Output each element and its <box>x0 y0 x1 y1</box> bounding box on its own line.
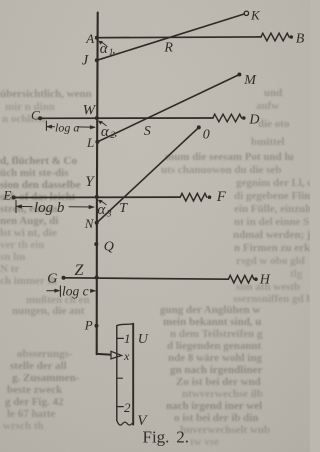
dimension "log b" right arrow <box>69 206 94 208</box>
svg-text:1: 1 <box>124 331 131 346</box>
svg-text:log b: log b <box>34 200 65 216</box>
svg-text:ein Fülle, einzuln: ein Fülle, einzuln <box>234 203 310 215</box>
svg-text:R: R <box>163 41 173 56</box>
angle alpha1 arrow at J <box>100 42 106 46</box>
bleed-through text from reverse page side <box>0 87 320 448</box>
main vertical axis line <box>97 13 98 355</box>
svg-text:D: D <box>248 112 259 127</box>
svg-text:rsgd w obo gld: rsgd w obo gld <box>236 255 305 267</box>
svg-text:W: W <box>83 103 97 119</box>
svg-text:wrsch th: wrsch th <box>3 420 44 432</box>
ray N-T-O diagonal <box>97 127 199 222</box>
svg-text:3: 3 <box>106 209 112 219</box>
svg-text:hnverwechselt wub: hnverwechselt wub <box>180 424 270 436</box>
ray J-R-K diagonal <box>97 14 244 60</box>
svg-text:α: α <box>97 202 106 218</box>
svg-text:U: U <box>138 332 149 347</box>
svg-text:uts chanuowon du die seb: uts chanuowon du die seb <box>161 164 281 176</box>
terminal dot F <box>208 195 212 199</box>
svg-text:Q: Q <box>104 240 114 255</box>
svg-text:gung der Anglühen w: gung der Anglühen w <box>160 304 260 316</box>
svg-text:T: T <box>119 201 128 216</box>
svg-text:aufw: aufw <box>256 100 279 112</box>
svg-text:nt in del einne S: nt in del einne S <box>234 216 309 228</box>
svg-text:mir n dinn: mir n dinn <box>5 101 55 113</box>
terminal dot H <box>254 277 258 281</box>
resistor H zigzag <box>228 275 253 283</box>
svg-text:d liegenden genannt: d liegenden genannt <box>167 340 261 352</box>
svg-text:tlg: tlg <box>290 268 303 280</box>
svg-text:Fig. 2.: Fig. 2. <box>143 428 189 447</box>
svg-text:g der Fig. 42: g der Fig. 42 <box>5 396 64 408</box>
svg-text:gegnim der Ll, d: gegnim der Ll, d <box>236 177 310 189</box>
node Z dot <box>95 276 99 280</box>
svg-text:le 67 hatte: le 67 hatte <box>7 408 55 420</box>
svg-text:J: J <box>82 52 89 68</box>
tick after alpha1 subscript <box>113 52 115 54</box>
svg-text:obsserungs-: obsserungs- <box>17 348 73 360</box>
svg-text:P: P <box>84 317 93 332</box>
angle alpha3 arrow at Y <box>100 201 107 205</box>
dimension "log b": tick below E <box>15 201 17 213</box>
svg-text:1: 1 <box>109 48 114 58</box>
svg-text:α: α <box>100 41 109 57</box>
svg-text:K: K <box>250 7 261 22</box>
scale tick middle <box>117 377 123 379</box>
wire E-F (row 3 horizontal) <box>14 196 181 198</box>
svg-text:0: 0 <box>203 127 210 142</box>
open arrowhead pointing into scale at x <box>111 351 122 359</box>
wire G-H (row 4 horizontal) <box>64 278 229 279</box>
svg-text:E: E <box>3 188 12 203</box>
node L dot <box>95 140 99 144</box>
node P dot <box>95 324 99 328</box>
scale bar top edge <box>117 324 133 326</box>
scale bar right edge <box>132 324 134 425</box>
svg-text:Z: Z <box>75 262 85 279</box>
node K open circle <box>244 11 248 15</box>
svg-text:o ist bei der ib din: o ist bei der ib din <box>174 412 258 424</box>
svg-text:N: N <box>84 216 95 231</box>
scale tick 1 <box>117 337 124 339</box>
svg-text:nach irgend iner wel: nach irgend iner wel <box>166 400 262 412</box>
svg-text:mein bekannt sind, u: mein bekannt sind, u <box>163 316 261 328</box>
svg-text:N tr: N tr <box>0 263 19 275</box>
dimension "log c" right arrow into axis <box>91 290 95 292</box>
svg-text:n dem Teilstreifen g: n dem Teilstreifen g <box>170 328 263 340</box>
ray L-S-M diagonal <box>97 75 239 142</box>
svg-text:übersichtlich, wenn: übersichtlich, wenn <box>0 88 92 100</box>
dimension "log a" left arrow <box>47 126 55 128</box>
svg-text:gn nach irgendliner: gn nach irgendliner <box>170 364 262 376</box>
wire: elbow from axis bottom to scale arrow <box>97 353 112 356</box>
scale bar bottom break squiggle <box>117 420 133 425</box>
scale bar U-V: left edge <box>116 326 118 421</box>
svg-text:ndmal werden; jad: ndmal werden; jad <box>233 229 310 241</box>
svg-text:2: 2 <box>110 131 115 141</box>
svg-text:nen Auge, di: nen Auge, di <box>0 215 58 227</box>
node Q dot <box>94 242 98 246</box>
svg-text:sion den dasselbe: sion den dasselbe <box>0 179 81 191</box>
resistor F zigzag <box>180 193 207 201</box>
terminal dot B <box>290 35 294 39</box>
svg-text:2: 2 <box>124 400 131 415</box>
svg-text:Zo ist bei der wnd: Zo ist bei der wnd <box>176 376 261 388</box>
terminal dot D <box>242 116 246 120</box>
node J dot <box>95 58 99 62</box>
svg-text:L: L <box>86 135 94 150</box>
node E dot <box>12 196 16 200</box>
svg-text:nungen, die ant: nungen, die ant <box>12 305 85 317</box>
scale tick 2 <box>117 406 123 408</box>
svg-text:di gegebene Flim: di gegebene Flim <box>234 190 310 202</box>
svg-text:d, flüchert & Co: d, flüchert & Co <box>0 155 77 167</box>
svg-text:S: S <box>144 124 151 139</box>
dimension "log b" left arrow <box>17 205 32 207</box>
svg-text:beste zweck: beste zweck <box>7 384 63 396</box>
node N dot <box>95 221 99 225</box>
svg-text:ver th ein: ver th ein <box>0 239 44 251</box>
svg-text:C: C <box>31 108 40 123</box>
dimension "log a" right arrow <box>78 126 95 128</box>
svg-text:n Firmen zu erklt: n Firmen zu erklt <box>234 242 310 254</box>
node C dot <box>38 116 42 120</box>
node W dot <box>95 116 99 120</box>
svg-text:bmittel: bmittel <box>251 136 285 148</box>
svg-text:H: H <box>259 272 271 287</box>
svg-text:üch mit ste-dis: üch mit ste-dis <box>0 167 69 179</box>
svg-text:die oto: die oto <box>258 118 290 130</box>
svg-text:lst wi nt, die: lst wi nt, die <box>0 227 57 239</box>
svg-text:g. Zusammen-: g. Zusammen- <box>12 372 80 384</box>
wire C-D (row 2 horizontal) <box>40 117 213 119</box>
svg-text:nde 8 wäre wohl ing: nde 8 wäre wohl ing <box>168 352 262 364</box>
resistor D zigzag <box>213 114 242 122</box>
svg-text:sn lm: sn lm <box>0 251 25 263</box>
svg-text:tw vse: tw vse <box>190 436 219 448</box>
resistor B zigzag <box>261 33 289 41</box>
node O dot <box>197 125 201 129</box>
svg-text:mum die seesam Pot und lu: mum die seesam Pot und lu <box>165 151 294 163</box>
svg-text:ntwverwechse ilb: ntwverwechse ilb <box>182 388 263 400</box>
svg-text:stelle der all: stelle der all <box>10 360 67 372</box>
svg-text:M: M <box>243 73 257 88</box>
tick after alpha2 subscript <box>115 135 117 137</box>
node M dot <box>237 73 241 77</box>
svg-text:B: B <box>296 31 305 46</box>
svg-text:α: α <box>101 124 110 140</box>
svg-text:A: A <box>85 31 94 46</box>
dimension "log c": outside arrow into tick below G <box>47 290 58 292</box>
dimension "log a": tick below C <box>45 121 47 131</box>
svg-text:G: G <box>47 271 57 286</box>
svg-text:F: F <box>216 189 227 205</box>
wire A-B (row 1 horizontal) <box>97 36 261 39</box>
svg-text:log a: log a <box>55 121 79 135</box>
node Y dot <box>95 195 99 199</box>
node G dot <box>62 276 66 280</box>
node A dot <box>95 36 99 40</box>
angle alpha2 arrow at W <box>100 122 106 126</box>
svg-text:und: und <box>264 87 282 99</box>
svg-text:log c: log c <box>62 283 89 298</box>
svg-text:x: x <box>123 349 130 363</box>
